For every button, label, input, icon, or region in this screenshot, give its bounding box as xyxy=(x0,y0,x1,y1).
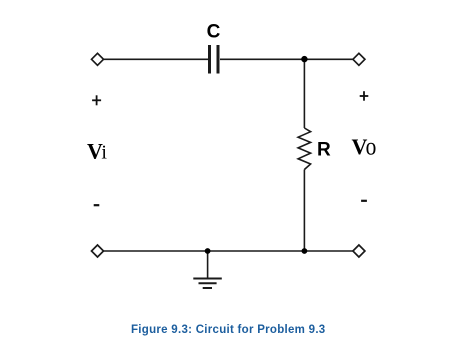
svg-text:R: R xyxy=(317,139,331,160)
svg-text:Figure 9.3: Circuit for Proble: Figure 9.3: Circuit for Problem 9.3 xyxy=(131,324,325,336)
svg-text:o: o xyxy=(366,133,377,161)
svg-text:Vi: Vi xyxy=(87,139,107,164)
svg-text:C: C xyxy=(207,21,221,42)
